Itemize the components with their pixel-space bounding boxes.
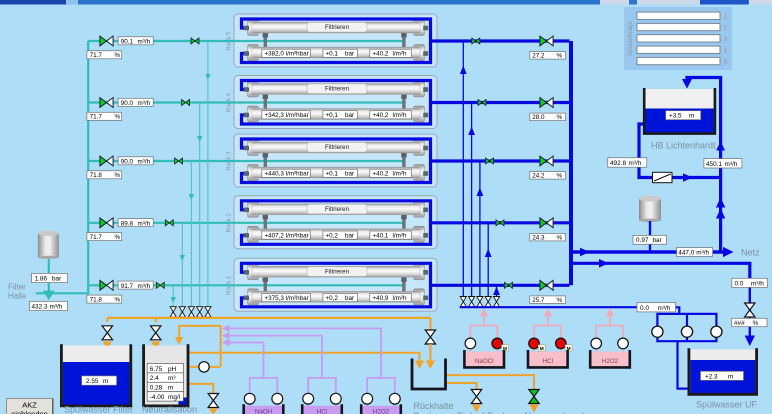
wire HB riser (blue) [687,78,721,253]
arrow down neutralisation outlet [209,409,218,414]
pressure vessel Filter Halle [38,231,59,260]
svg-text:Spülaufträge: Spülaufträge [627,20,634,56]
wire neutralisation to rueckhalte (orange) [189,353,420,361]
svg-text:m³/h: m³/h [725,161,738,168]
wire cylinder stem Filter Halle [48,257,50,293]
svg-text:l/m²h: l/m²h [393,171,407,178]
value box tmp rack 1 [323,294,358,302]
svg-text:bar: bar [345,171,354,178]
svg-text:m³/h: m³/h [751,280,764,287]
Filtrieren button rack 3 [307,143,367,153]
chem station H2O2 [590,308,630,367]
chem station NaOCl [464,308,508,367]
svg-text:m³/h: m³/h [629,160,642,167]
valve backwash 1 [460,297,466,307]
membrane tube caps rack 4 [248,81,425,122]
arrow up HCl dosing [544,308,553,316]
svg-text:pH: pH [168,366,177,373]
wire UF inlet valve stem (blue) [749,288,751,337]
value box perm rack 4 [370,111,412,119]
value box 0.0 m3/h collector [637,303,676,312]
arrow left dosing H2O2 [222,325,230,333]
svg-text:+40,2: +40,2 [373,171,389,178]
wire waste header (orange) [107,317,430,319]
membrane tube bottom rack 1 [252,291,420,302]
svg-text:m: m [168,385,173,392]
arrow down drain rack 2 [180,255,186,261]
pipe loop rack 4 (blue) [242,81,431,125]
flow box feed rack 4 [118,98,153,107]
svg-text:%: % [753,320,759,327]
flow box feed rack 2 [118,219,153,228]
wire NaOCl riser (pink) [470,314,497,339]
vessel NaOCl [466,352,503,367]
arrow right flowmeter out [683,173,693,182]
svg-text:NaOH: NaOH [255,409,272,414]
value box 2.55 m [82,376,117,385]
wire drain rack 3 (teal thin) [190,161,192,307]
pump H2O2 1 [591,338,602,349]
pump NaOCl 1 [465,338,476,349]
svg-text:HCl: HCl [317,409,327,414]
svg-text:Filter: Filter [8,283,26,292]
rack panel Rack 1 [226,258,438,311]
value box 450.1 m3/h [704,159,742,168]
tank Spuelwasser Filter [61,344,130,406]
valve waste filter tank [102,326,112,340]
wire waste drop filter tank (orange) [106,318,108,322]
valve output rack 4 [540,98,553,108]
svg-text:3: 3 [724,36,728,43]
wire drain rack 2 (teal thin) [181,223,183,307]
valve drain 4 [197,307,203,317]
value box 492.8 m3/h [608,158,647,167]
value box 0.0 m3/h right [732,278,768,287]
pump neutralisation circulation [199,362,209,372]
percent box feed rack 5 [87,51,122,59]
svg-text:Filtrieren: Filtrieren [325,269,350,276]
small valve output rack 5 [472,38,480,44]
wire backwash branch rack 1 [496,285,498,296]
valve rueckhalte out A (green) [529,390,539,404]
pump HCl acid 2 [330,393,341,404]
wire feed line rack 1 (teal) [88,284,404,286]
wire NaOCl pump stubs [470,349,497,353]
svg-text:-4.00: -4.00 [150,394,165,401]
pump NaOH 2 [272,393,283,404]
vessel HCl [529,352,566,367]
svg-text:90.0: 90.0 [121,159,134,166]
motor tag HCl 2 [565,345,572,352]
svg-text:+342,3 l/m²hbar: +342,3 l/m²hbar [265,112,309,119]
arrow left dosing HCl [222,332,230,340]
pipe loop rack 1 (blue) [242,263,431,307]
pipe loop rack 5 (blue) [242,19,431,63]
panel Spuelauftraege [624,7,732,70]
membrane tube top rack 2 [252,204,420,215]
vessel H2O2 dos [362,406,399,414]
wire backwash branch rack 4 [471,103,473,297]
value box dosing [147,392,183,401]
wire backwash collector (blue) [460,306,637,308]
wire pump manifold loop (blue) [657,314,716,389]
arrow up backwash rack 4 [468,127,475,136]
arrow down into neutralisation [151,342,160,351]
small valve feed rack 3 [175,158,183,164]
wire output rack 3 (blue) [431,159,570,162]
valve backwash 5 [493,297,499,307]
svg-text:HCl: HCl [543,358,553,365]
valve output rack 3 [540,156,553,166]
membrane tube top rack 1 [252,266,420,277]
small valve output rack 2 [496,220,504,226]
value box 432.3 m3/h [30,301,68,310]
svg-text:m: m [728,373,733,380]
arrow down drain rack 5 [205,74,211,80]
valve backwash 2 [469,297,475,307]
value box tmp rack 5 [323,49,358,57]
svg-text:m³/h: m³/h [138,283,151,290]
svg-text:m³/h: m³/h [138,39,151,46]
svg-text:m³: m³ [168,375,175,382]
pipe loop rack 2 (blue) [242,201,431,245]
membrane tube bottom rack 4 [252,109,420,120]
arrow up HB riser top [716,141,725,151]
value box +3.5 m [666,111,701,120]
svg-text:447,0: 447,0 [678,249,694,256]
svg-text:m³/h: m³/h [50,303,63,310]
wire neutralisation outlet (orange) [189,384,214,394]
svg-text:0.0: 0.0 [640,305,649,312]
basin Rueckhalte Becken [412,359,446,390]
top window strip [0,0,772,5]
svg-text:###: ### [734,320,745,327]
valve UF inlet [745,303,755,317]
small valve output rack 4 [478,100,486,106]
svg-text:+0,2: +0,2 [326,295,339,302]
svg-text:1.86: 1.86 [35,275,48,282]
pipe connector squares rack 4 [244,87,428,117]
wire backwash branch rack 5 [462,41,464,296]
arrow up backwash rack 5 [460,66,467,75]
svg-text:einblenden: einblenden [11,410,48,414]
svg-text:5: 5 [724,59,728,66]
arrow up HB riser double 2 [716,209,725,219]
motor tag NaOCl 2 [502,345,509,352]
wire feed line rack 5 (teal) [88,40,404,42]
small valve feed rack 5 [191,38,199,44]
svg-text:+40,2: +40,2 [373,112,389,119]
wire backwash branch rack 3 [479,161,481,296]
svg-text:Filtrieren: Filtrieren [325,206,350,213]
valve drain 1 [170,307,176,317]
valve waste rueckhalte [425,330,435,344]
svg-text:Halle: Halle [8,292,27,301]
svg-text:+40,9: +40,9 [373,295,389,302]
svg-text:m³/h: m³/h [138,220,151,227]
wire permeate main vertical (blue) [569,41,573,285]
arrow down feed inlet [43,291,55,301]
wire neutralisation overflow loop (orange) [179,326,221,367]
svg-text:m: m [103,378,108,385]
wire collector to pump manifold (blue) [676,307,680,314]
arrow down into filter tank [103,342,112,351]
valve feed rack 3 [100,156,113,166]
button AKZ einblenden [7,399,53,414]
valve drain 5 [205,307,211,317]
small valve feed rack 4 [182,100,190,106]
svg-text:Filtrieren: Filtrieren [325,24,350,31]
svg-text:%: % [557,173,563,180]
svg-text:450.1: 450.1 [706,161,722,168]
flow box feed rack 3 [118,157,153,166]
wire main feed header vertical (teal) [87,41,89,294]
vessel HCl acid [303,406,340,414]
value box perm rack 1 [370,294,412,302]
wire rueckhalte out B (orange) [446,383,477,390]
valve output rack 1 [540,280,553,290]
svg-text:H2O2: H2O2 [602,358,619,365]
svg-text:bar: bar [345,295,354,302]
svg-text:4: 4 [724,47,728,54]
valve waste neutralisation [151,326,161,340]
membrane tube top rack 5 [252,22,420,33]
arrow down rueckhalte out B [472,405,481,413]
value box 447.0 m3/h [677,248,713,257]
svg-text:%: % [557,114,563,121]
wire drain rack 5 (teal thin) [207,41,209,307]
svg-text:+0,2: +0,2 [326,232,339,239]
svg-text:0.28: 0.28 [150,385,163,392]
value box tmp rack 2 [323,231,358,239]
pressure vessel netz [639,196,661,222]
svg-text:%: % [115,297,121,304]
wire waste drop rueckhalte (orange) [429,318,431,330]
pump H2O2 dos 1 [362,393,373,404]
value box perm rack 5 [370,49,412,57]
wire drain rack 4 (teal thin) [199,103,201,307]
svg-text:Spülwasser Filter: Spülwasser Filter [64,405,133,414]
svg-text:+375,3 l/m²hbar: +375,3 l/m²hbar [265,295,309,302]
pipe connector squares rack 1 [244,270,428,300]
wire HCl pump stubs [534,349,561,353]
membrane tube top rack 4 [252,84,420,95]
svg-text:%: % [115,52,121,59]
svg-text:432.3: 432.3 [32,303,48,310]
svg-text:2.55: 2.55 [86,378,99,385]
svg-text:bar: bar [52,275,62,282]
svg-text:28.0: 28.0 [532,114,545,121]
valve feed rack 5 [100,36,113,46]
pipe loop rack 3 (blue) [242,139,431,183]
svg-text:71.8: 71.8 [90,297,103,304]
value box perm rack 2 [370,231,412,239]
svg-text:bar: bar [653,237,663,244]
svg-text:l/m²h: l/m²h [393,232,407,239]
valve feed rack 4 [100,98,113,108]
rack panel Rack 4 [226,76,438,129]
wire output rack 2 (blue) [431,221,570,224]
svg-text:bar: bar [345,112,354,119]
valve drain 3 [188,307,194,317]
wire waste drop neutralisation (orange) [155,318,157,322]
wire output rack 1 (blue) [431,284,570,287]
membrane tube bottom rack 3 [252,167,420,178]
arrow up HB riser double 1 [716,198,725,208]
valve feed rack 2 [100,218,113,228]
svg-text:Netz: Netz [741,248,760,258]
arrow right spuelwasser line [599,259,609,268]
arrow down rueckhalte out A [529,405,538,413]
arrow up backwash rack 3 [477,188,484,197]
membrane tube caps rack 3 [248,140,425,181]
svg-text:2: 2 [724,25,728,32]
svg-text:m: m [689,113,694,120]
membrane tube caps rack 2 [248,201,425,242]
value box ### percent [732,318,768,327]
pump H2O2 dos 2 [389,393,400,404]
arrow down drain rack 4 [197,136,203,142]
valve neutralisation outlet [208,394,218,408]
value box volume [147,373,183,382]
svg-text:+382,0 l/m²hbar: +382,0 l/m²hbar [265,51,309,58]
svg-text:Filtrieren: Filtrieren [325,86,350,93]
order slot 2 [637,23,728,31]
svg-text:AKZ: AKZ [22,401,37,410]
Filtrieren button rack 4 [307,84,367,94]
svg-text:+40,1: +40,1 [373,232,389,239]
svg-text:24.3: 24.3 [532,234,545,241]
arrow right netz mid [580,248,590,257]
small valve output rack 3 [486,158,494,164]
wire dosing line H2O2 (violet) [229,328,395,406]
pump H2O2 2 [618,338,629,349]
pipe connector squares rack 3 [244,146,428,176]
arrow down drain rack 1 [170,297,176,303]
svg-text:90.1: 90.1 [121,39,134,46]
membrane tube bottom rack 2 [252,229,420,240]
order slot 3 [637,35,728,43]
svg-text:+407,2 l/m²hbar: +407,2 l/m²hbar [265,232,309,239]
membrane connector stubs rack 2 [263,215,407,230]
percent box feed rack 1 [87,295,122,303]
pump NaOCl 2 (running) [492,338,503,349]
rack panel Rack 2 [226,196,438,249]
membrane tube caps rack 1 [248,264,425,305]
value box flux rack 4 [262,111,311,119]
svg-text:+2.3: +2.3 [705,373,718,380]
svg-text:+3.5: +3.5 [669,113,682,120]
svg-text:bar: bar [345,51,354,58]
svg-text:bar: bar [345,232,354,239]
arrow down drain rack 3 [189,194,195,200]
valve rueckhalte out B [471,390,481,404]
wire spuelwasser line (blue) [571,263,750,278]
wire HB outlet via flowmeter (blue) [639,124,719,178]
percent box output rack 4 [530,113,566,121]
arrow up H2O2 dosing [606,308,615,316]
svg-text:90.0: 90.0 [121,100,134,107]
svg-text:+0,1: +0,1 [326,51,339,58]
svg-text:Spülwasser UF: Spülwasser UF [696,400,758,410]
wire backwash branch rack 2 [487,223,489,296]
svg-text:6.75: 6.75 [150,366,163,373]
svg-text:Filtrieren: Filtrieren [325,144,350,151]
pipe connector squares rack 2 [244,208,428,238]
chem station HCl [528,308,572,367]
valve backwash 4 [485,297,491,307]
membrane connector stubs rack 5 [263,33,407,48]
percent box output rack 3 [530,172,566,180]
percent box output rack 2 [530,233,566,241]
order slot 4 [637,46,728,54]
pump UF 3 [711,326,722,337]
arrow right netz end [723,247,734,257]
svg-text:71.7: 71.7 [90,52,103,59]
arrow up NaOCl dosing [480,308,489,316]
membrane tube top rack 3 [252,142,420,153]
arrow up backwash rack 2 [485,249,492,258]
flow box feed rack 5 [118,37,153,46]
membrane connector stubs rack 3 [263,153,407,168]
order slot 1 [637,12,728,20]
pipe connector squares rack 5 [244,26,428,56]
svg-text:Rückhalte: Rückhalte [414,401,454,411]
membrane connector stubs rack 1 [263,277,407,292]
svg-text:%: % [557,53,563,60]
svg-text:mg/l: mg/l [168,394,180,401]
svg-text:+0,1: +0,1 [326,171,339,178]
wire dosing line HCl (violet) [229,336,336,407]
value box +2.3 m [701,371,744,380]
vessel H2O2 [591,352,628,367]
flowmeter [653,172,673,182]
svg-text:%: % [557,297,563,304]
svg-text:91.7: 91.7 [121,283,134,290]
svg-text:0.0: 0.0 [735,280,744,287]
small valve feed rack 1 [156,282,164,288]
valve backwash 3 [477,297,483,307]
svg-text:2.4: 2.4 [150,375,159,382]
percent box feed rack 3 [87,171,122,179]
percent box output rack 5 [530,52,566,60]
valve output rack 5 [540,36,553,46]
value box flux rack 2 [262,231,311,239]
pump UF 2 [681,326,692,337]
wire feed inlet horizontal (teal) [36,292,88,294]
value box flux rack 3 [262,169,311,177]
tank Neutralisation [144,344,188,406]
arrow down into UF tank [745,336,755,347]
value box tmp rack 4 [323,111,358,119]
value box 1.86 bar [32,273,68,282]
wire rueckhalte out A (orange) [446,375,534,389]
wire feed line rack 3 (teal) [88,160,404,162]
wire netz line (blue) [571,250,729,254]
svg-text:m³/h: m³/h [696,249,709,256]
value box 0.97 bar [633,235,667,244]
Filtrieren button rack 1 [307,267,367,277]
svg-text:m³/h: m³/h [138,159,151,166]
value box pH [147,364,183,373]
motor tag HCl 1 [538,345,545,352]
svg-text:HB Lichtenhardt: HB Lichtenhardt [651,141,716,151]
svg-text:0.97: 0.97 [636,237,649,244]
wire rueckhalte valve tail (orange) [429,344,431,361]
value box perm rack 3 [370,169,412,177]
svg-text:71.8: 71.8 [90,172,103,179]
svg-text:M: M [540,346,544,352]
